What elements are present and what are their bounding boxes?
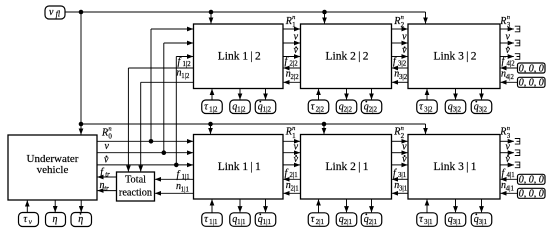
svg-text:R: R [101,127,108,138]
wire R0 into Link1|2 [151,28,193,30]
svg-text:η: η [78,214,83,225]
wire qdot_3|1 output [481,199,483,212]
node qdot_2|2 box [361,100,382,114]
terminator nu top [515,40,520,46]
svg-text:1|1: 1|1 [237,218,246,226]
wire q_1|1 output [239,199,241,212]
node qdot_1|2 box [255,100,276,114]
svg-text:τ: τ [419,214,423,225]
wire nudot row Link1|2-Link2|2 [283,56,300,58]
terminator R3 top [515,26,520,32]
wire nudot branch up [175,57,177,165]
wire R3 stub bottom [500,140,514,142]
wire q_3|1 output [455,199,457,212]
svg-text:3|2: 3|2 [453,105,462,113]
junction dot rail2/Link1|1 [208,122,213,127]
terminator nudot top [515,54,520,60]
svg-text:n: n [292,14,295,21]
wire q_3|2 output [455,89,457,100]
wire nudot into Link1|2 [176,56,193,58]
svg-text:n: n [401,125,404,132]
junction dot nu branch [162,150,167,155]
svg-text:4|1: 4|1 [506,185,514,192]
node qdot_1|1 box [255,213,276,227]
wire qdot_1|2 output [265,89,267,100]
node tau_3|1 box [417,213,438,227]
node zero vector box n_4|1 [518,188,546,198]
node zero vector box f_4|1 [518,174,546,184]
wire v_fl rail top [65,11,426,13]
node q_2|2 box [336,100,357,114]
svg-text:n: n [108,126,111,133]
svg-text:ν: ν [294,141,299,152]
wire f_1|2 from Link1|2 left [128,67,193,69]
node zero vector box f_4|2 [518,63,546,73]
wire tau_3|2 input [426,89,428,100]
node etadot box [71,213,92,227]
svg-text:3|1: 3|1 [479,218,488,226]
wire f return row Link2|1-Link3|1 [392,178,408,180]
wire drop into Link 3|2 top [425,12,427,23]
wire n4 zero input top [501,81,518,83]
svg-text:tr: tr [105,171,110,178]
svg-text:τ: τ [204,101,208,112]
junction dot rail1/Link2|2 [322,10,327,15]
wire etadot output [80,200,82,212]
wire nu row Link2|1-Link3|1 [392,152,408,154]
svg-text:3|2: 3|2 [399,74,408,81]
node qdot_3|1 box [471,213,492,227]
wire drop into Link 2|2 top [324,12,326,23]
junction dot nudot branch [174,163,179,168]
node tau_3|2 box [417,100,438,114]
junction dot R0 branch [149,139,154,144]
svg-text:3|2: 3|2 [479,105,488,113]
svg-text:4|2: 4|2 [506,74,515,81]
svg-text:1: 1 [292,132,296,140]
svg-text:Link 1 | 1: Link 1 | 1 [218,161,261,173]
wire n_1|1 from Link1|1 into Total reaction [155,192,193,194]
node tau_1|2 box [202,100,223,114]
svg-text:ν: ν [402,141,407,152]
svg-text:0, 0, 0: 0, 0, 0 [519,189,544,200]
wire tau_2|2 input [318,89,320,100]
wire eta output [54,200,56,212]
svg-text:Link 3 | 2: Link 3 | 2 [433,51,476,63]
block Link 1 | 2 [194,24,284,89]
svg-text:τ: τ [311,101,315,112]
node qdot_2|1 box [361,213,382,227]
wire nudot row Link1|1-Link2|1 [283,164,300,166]
svg-text:Link 3 | 1: Link 3 | 1 [433,161,476,173]
svg-text:n: n [507,14,510,21]
junction dot rail2/Link2|1 [322,122,327,127]
svg-text:0: 0 [108,133,112,141]
wire tau_1|1 input [211,200,213,213]
wire nudot row Link2|1-Link3|1 [392,164,408,166]
wire nu stub bottom [500,152,514,154]
wire drop into Link 1|1 top [210,124,212,134]
wire n return row Link2|2-Link3|2 [392,81,408,83]
svg-text:Link 1 | 2: Link 1 | 2 [218,51,261,63]
wire qdot_2|2 output [371,89,373,100]
svg-text:3: 3 [507,21,511,29]
wire f_1|1 from Link1|1 into Total reaction [155,178,193,180]
svg-text:τ: τ [204,214,208,225]
svg-text:ν: ν [506,32,511,43]
block Link 2 | 2 [301,24,392,89]
wire tau_2|1 input [318,200,320,213]
wire n return row Link1|1-Link2|1 [284,192,301,194]
svg-text:1|2: 1|2 [263,105,272,113]
svg-text:η: η [53,214,58,225]
wire nu row Link2|2-Link3|2 [392,42,408,44]
terminator nudot bottom [515,162,520,168]
svg-text:n: n [507,125,510,132]
wire qdot_3|2 output [481,89,483,100]
svg-text:n: n [401,14,404,21]
wire nudot stub bottom [500,164,514,166]
block Link 1 | 1 [194,135,284,200]
node q_2|1 box [336,213,357,227]
wire R3 stub top [500,28,514,30]
wire f return row Link2|2-Link3|2 [392,67,408,69]
svg-text:1: 1 [292,21,296,29]
wire nu stub top [500,42,514,44]
wire nudot stub top [500,56,514,58]
wire nudot row vehicle to Link1|1 [97,164,193,166]
svg-text:2|1: 2|1 [344,218,353,226]
node eta box [46,213,66,227]
svg-text:2: 2 [401,132,405,140]
svg-text:vehicle: vehicle [37,164,69,176]
svg-text:τ: τ [419,101,423,112]
svg-text:3|1: 3|1 [453,218,462,226]
svg-text:1|2: 1|2 [237,105,246,113]
svg-text:1|1: 1|1 [181,187,189,194]
node zero vector box n_4|2 [518,77,546,87]
wire n4 zero input bottom [501,192,518,194]
wire f4 zero input bottom [501,178,518,180]
node q_1|1 box [230,213,251,227]
block Link 2 | 1 [301,135,392,200]
node v_fl source box [45,6,65,19]
svg-text:4|1: 4|1 [507,172,515,179]
node q_3|2 box [445,100,466,114]
svg-text:Link 2 | 1: Link 2 | 1 [325,161,368,173]
svg-text:0, 0, 0: 0, 0, 0 [519,175,544,186]
block Total reaction [117,172,155,201]
svg-text:0, 0, 0: 0, 0, 0 [519,78,544,89]
wire tau_1|2 input [211,89,213,100]
svg-text:3|1: 3|1 [399,185,407,192]
svg-text:1|2: 1|2 [209,105,218,113]
wire nu row Link1|1-Link2|1 [283,152,300,154]
terminator nu bottom [515,150,520,156]
svg-text:2|2: 2|2 [290,60,299,67]
svg-text:ν: ν [105,141,110,152]
node tau_1|1 box [202,213,223,227]
svg-text:R: R [285,127,292,138]
svg-text:τ: τ [311,214,315,225]
wire tau_3|1 input [426,200,428,213]
svg-text:1|1: 1|1 [263,218,272,226]
wire v_fl rail lower [81,123,426,125]
wire q_2|2 output [346,89,348,100]
svg-text:2|1: 2|1 [369,218,378,226]
svg-text:2|2: 2|2 [344,105,353,113]
svg-text:R: R [393,16,400,27]
svg-text:2|1: 2|1 [291,185,299,192]
wire R row Link1|2-Link2|2 [283,28,300,30]
svg-text:3|2: 3|2 [424,105,433,113]
wire n_tr into vehicle [98,190,117,192]
svg-text:2|1: 2|1 [316,218,325,226]
svg-text:2|2: 2|2 [291,74,300,81]
svg-text:2: 2 [401,21,405,29]
svg-text:1|2: 1|2 [183,61,192,68]
svg-text:τ: τ [24,214,28,225]
wire nu into Link1|2 [164,42,193,44]
wire n return row Link2|1-Link3|1 [392,192,408,194]
svg-text:reaction: reaction [119,188,152,199]
wire drop into Link 2|1 top [323,124,325,134]
svg-text:R: R [393,127,400,138]
wire n return row Link1|2-Link2|2 [284,81,301,83]
block Link 3 | 2 [408,24,500,89]
svg-text:n: n [292,125,295,132]
svg-text:4|2: 4|2 [507,60,516,67]
wire f return row Link1|2-Link2|2 [284,67,301,69]
svg-text:R: R [285,16,292,27]
junction dot v_fl branch [79,10,84,15]
wire R row Link1|1-Link2|1 [283,140,300,142]
svg-text:v: v [49,7,54,18]
wire R row Link2|1-Link3|1 [392,140,408,142]
svg-text:1|1: 1|1 [209,218,218,226]
svg-text:tr: tr [104,185,109,192]
wire nudot row Link2|2-Link3|2 [392,56,408,58]
junction dot rail2 branch [79,122,84,127]
svg-text:R: R [499,16,506,27]
node tau_v box [19,213,39,227]
wire f_tr into vehicle [98,176,117,178]
wire arrow into vehicle top [80,124,82,134]
node tau_2|1 box [308,213,329,227]
svg-text:R: R [499,127,506,138]
wire v_fl vertical down [80,12,82,124]
svg-text:2|2: 2|2 [369,105,378,113]
svg-text:ν: ν [402,32,407,43]
svg-text:3: 3 [507,132,511,140]
svg-text:1|1: 1|1 [182,174,190,181]
svg-text:Total: Total [125,175,146,186]
wire q_1|2 output [239,89,241,100]
node tau_2|2 box [308,100,329,114]
block Underwater vehicle [8,135,97,200]
svg-text:ν: ν [506,141,511,152]
wire drop into Link 3|1 top [425,124,427,134]
svg-text:3|2: 3|2 [398,60,407,67]
wire R0 branch up [150,29,152,141]
wire nu row vehicle to Link1|1 [97,152,193,154]
wire f return row Link1|1-Link2|1 [284,178,301,180]
svg-text:2|1: 2|1 [290,172,298,179]
svg-text:2|2: 2|2 [316,105,325,113]
wire drop into Link 1|2 top [210,12,212,23]
node q_3|1 box [445,213,466,227]
wire nu branch up [163,43,165,153]
terminator R3 bottom [515,139,520,145]
wire q_2|1 output [346,199,348,212]
svg-text:fl: fl [56,10,61,19]
wire n_1|2 from Link1|2 left [141,81,194,83]
wire R row Link2|2-Link3|2 [392,28,408,30]
junction dot rail1/Link1|2 [209,10,214,15]
wire qdot_1|1 output [265,199,267,212]
wire tau_v input [26,201,28,213]
wire f4 zero input top [501,67,518,69]
wire qdot_2|1 output [371,199,373,212]
svg-text:1|2: 1|2 [181,73,190,80]
svg-text:Link 2 | 2: Link 2 | 2 [325,51,368,63]
node qdot_3|2 box [471,100,492,114]
wire R0 row vehicle to Link1|1 [97,140,193,142]
svg-text:0, 0, 0: 0, 0, 0 [519,63,544,74]
wire nu row Link1|2-Link2|2 [283,42,300,44]
svg-text:3|1: 3|1 [424,218,433,226]
block Link 3 | 1 [408,135,500,200]
svg-text:3|1: 3|1 [398,172,406,179]
node q_1|2 box [230,100,251,114]
svg-text:ν: ν [294,32,299,43]
